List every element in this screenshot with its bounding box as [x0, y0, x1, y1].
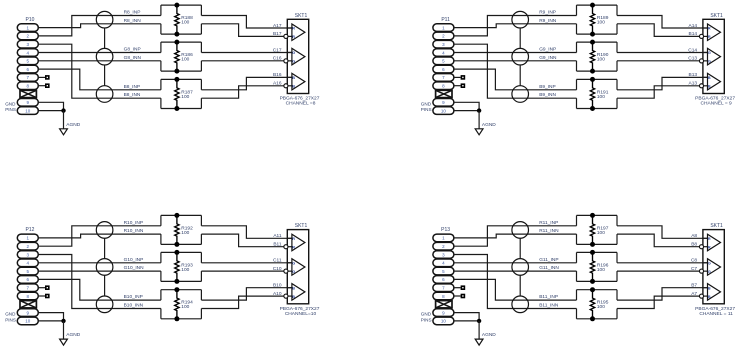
wire pin3 to B10_INN [38, 255, 161, 309]
wire R10 pair into R192 frame [161, 215, 202, 244]
svg-text:G11_INN: G11_INN [539, 265, 559, 271]
ground AGND [475, 122, 496, 135]
wire pin3 to B8_INN [38, 44, 161, 98]
wire pin10 to ground net [454, 320, 479, 322]
shield bead R11 pair [512, 222, 529, 239]
shield bead G11 pair [512, 259, 529, 276]
svg-text:G: G [292, 270, 295, 274]
wire pin8 stub [38, 85, 45, 87]
resistor R196 100 [590, 250, 609, 284]
svg-text:G11_INP: G11_INP [539, 257, 558, 263]
svg-text:100: 100 [181, 57, 189, 63]
wire to AGND [478, 321, 480, 339]
svg-text:P11: P11 [441, 17, 450, 23]
svg-text:R: R [292, 27, 295, 31]
svg-text:B17: B17 [273, 31, 282, 37]
svg-text:100: 100 [181, 304, 189, 310]
svg-text:PINS: PINS [421, 107, 432, 112]
wire pin3 to B11_INN [454, 255, 577, 309]
svg-text:A17: A17 [273, 23, 282, 29]
wire to AGND [63, 111, 65, 129]
svg-text:B: B [708, 76, 711, 80]
svg-text:R9_INN: R9_INN [539, 18, 557, 24]
wire pin9 to ground net [454, 313, 479, 321]
wire bead link 1-2 [519, 28, 521, 48]
wire bead link 2-3 [519, 65, 521, 86]
svg-text:CHANNEL = 9: CHANNEL = 9 [701, 101, 732, 107]
wire pin4 to G9_INP [454, 52, 577, 54]
svg-text:B8_INP: B8_INP [124, 84, 141, 90]
svg-text:B: B [292, 76, 295, 80]
wire to AGND [63, 321, 65, 339]
buffer B input pair [284, 284, 305, 301]
svg-text:C11: C11 [273, 258, 282, 264]
svg-text:G9_INN: G9_INN [539, 55, 557, 61]
no-connect crossed box [20, 90, 36, 97]
wire pin6 to B11_INP [454, 279, 577, 300]
wire pin1 to R11_INN [454, 234, 577, 238]
svg-text:SKT1: SKT1 [710, 13, 723, 19]
wire G9_INP to C14 [617, 52, 708, 54]
wire pin5 to G11_INN [454, 270, 577, 272]
svg-text:B10_INP: B10_INP [124, 294, 143, 300]
svg-text:A8: A8 [691, 233, 697, 239]
svg-text:C17: C17 [273, 47, 282, 53]
wire G10_INN to C10 [201, 270, 284, 272]
shield bead B9 pair [512, 86, 529, 103]
resistor R191 100 [590, 77, 609, 111]
svg-text:G: G [708, 60, 711, 64]
shield bead G10 pair [96, 259, 113, 276]
svg-text:GND: GND [5, 101, 16, 106]
svg-text:R8_INN: R8_INN [124, 18, 142, 24]
svg-text:AGND: AGND [66, 332, 80, 338]
terminator on pin 8 [45, 294, 50, 299]
svg-text:A13: A13 [689, 81, 698, 87]
svg-text:G8_INP: G8_INP [124, 47, 141, 53]
svg-text:PINS: PINS [5, 107, 16, 112]
svg-text:C14: C14 [688, 47, 697, 53]
svg-text:G10_INN: G10_INN [124, 265, 145, 271]
svg-text:B10_INN: B10_INN [124, 303, 144, 309]
wire pin5 to G10_INN [38, 270, 161, 272]
wire R11_INN to B8 [617, 234, 700, 247]
wire pin8 stub [454, 295, 461, 297]
svg-text:R11_INP: R11_INP [539, 220, 558, 226]
wire B11_INN to A7 [617, 296, 700, 308]
wire bead link 2-3 [519, 275, 521, 296]
svg-text:AGND: AGND [482, 122, 496, 128]
wire pin1 to R9_INN [454, 24, 577, 28]
svg-text:R: R [292, 245, 295, 249]
svg-text:R10_INN: R10_INN [124, 228, 144, 234]
connector P12 [17, 227, 38, 325]
svg-text:B9_INN: B9_INN [539, 92, 556, 98]
svg-text:PINS: PINS [5, 317, 16, 322]
svg-text:B8_INN: B8_INN [124, 92, 141, 98]
terminator on pin 7 [461, 75, 466, 80]
label GND PINS [421, 101, 432, 112]
svg-text:B14: B14 [689, 31, 698, 37]
ground AGND [60, 332, 81, 345]
wire B8_INN to A16 [201, 86, 284, 98]
wire G10 pair into R193 frame [161, 252, 202, 281]
svg-text:B10: B10 [273, 283, 282, 289]
svg-text:C8: C8 [691, 258, 697, 264]
svg-text:100: 100 [597, 94, 605, 100]
svg-text:AGND: AGND [66, 122, 80, 128]
shield bead R8 pair [96, 11, 113, 28]
resistor R193 100 [174, 250, 193, 284]
svg-text:B: B [292, 295, 295, 299]
svg-text:B16: B16 [273, 72, 282, 78]
buffer R input pair [284, 234, 305, 251]
ground AGND [60, 122, 81, 135]
wire pin4 to G10_INP [38, 262, 161, 264]
resistor R195 100 [590, 287, 609, 321]
svg-text:B: B [292, 286, 295, 290]
wire pin1 to R10_INN [38, 234, 161, 238]
terminator on pin 8 [461, 294, 466, 299]
wire B8_INP to B16 [201, 77, 292, 89]
resistor R192 100 [174, 213, 193, 247]
connector P10 [17, 17, 38, 115]
shield bead G9 pair [512, 48, 529, 65]
svg-text:SKT1: SKT1 [295, 223, 308, 229]
svg-text:100: 100 [181, 94, 189, 100]
no-connect crossed box [436, 90, 452, 97]
svg-text:P12: P12 [26, 227, 35, 233]
shield bead R9 pair [512, 11, 529, 28]
svg-text:100: 100 [597, 267, 605, 273]
wire B8 pair into R187 frame [161, 79, 202, 108]
svg-text:B11: B11 [273, 242, 282, 248]
wire B11 pair into R195 frame [577, 290, 618, 319]
svg-text:G: G [292, 51, 295, 55]
wire R11 pair into R197 frame [577, 215, 618, 244]
ground AGND [475, 332, 496, 345]
wire pin5 to G9_INN [454, 60, 577, 62]
label GND PINS [5, 101, 16, 112]
wire pin3 to B9_INN [454, 44, 577, 98]
wire G11_INN to C7 [617, 270, 700, 272]
buffer B input pair [699, 284, 720, 301]
wire R9_INN to B14 [617, 24, 700, 37]
shield bead B10 pair [96, 296, 113, 313]
svg-text:R8_INP: R8_INP [124, 10, 141, 16]
svg-text:G8_INN: G8_INN [124, 55, 142, 61]
wire pin4 to G8_INP [38, 52, 161, 54]
svg-text:A16: A16 [273, 81, 282, 87]
svg-text:B7: B7 [691, 283, 697, 289]
wire pin10 to ground net [454, 110, 479, 112]
wire G8_INN to C16 [201, 60, 284, 62]
no-connect crossed box [436, 301, 452, 308]
wire G8_INP to C17 [201, 52, 292, 54]
buffer R input pair [699, 24, 720, 41]
svg-text:G10_INP: G10_INP [124, 257, 144, 263]
svg-text:100: 100 [597, 230, 605, 236]
wire R9 pair into R189 frame [577, 5, 618, 34]
svg-text:GND: GND [5, 312, 16, 317]
svg-text:G: G [292, 60, 295, 64]
svg-text:B9_INP: B9_INP [539, 84, 556, 90]
socket part label [695, 306, 735, 317]
svg-text:R10_INP: R10_INP [124, 220, 143, 226]
wire G9 pair into R190 frame [577, 42, 618, 71]
junction ground node [61, 319, 65, 323]
wire B10 pair into R194 frame [161, 290, 202, 319]
wire G8 pair into R186 frame [161, 42, 202, 71]
wire B9_INP to B13 [617, 77, 708, 89]
svg-text:P10: P10 [26, 17, 35, 23]
svg-text:R: R [708, 237, 711, 241]
wire B9 pair into R191 frame [577, 79, 618, 108]
svg-text:10: 10 [441, 319, 447, 324]
wire pin6 to B10_INP [38, 279, 161, 300]
shield bead R10 pair [96, 222, 113, 239]
svg-text:CHANNEL=10: CHANNEL=10 [285, 311, 317, 317]
wire R9_INP to A14 [617, 16, 708, 29]
resistor R186 100 [174, 40, 193, 74]
wire bead link 1-2 [104, 238, 106, 258]
buffer B input pair [284, 73, 305, 90]
wire pin9 to ground net [38, 313, 63, 321]
svg-text:B13: B13 [689, 72, 698, 78]
socket SKT1 [287, 13, 308, 94]
wire pin10 to ground net [38, 110, 63, 112]
svg-text:SKT1: SKT1 [710, 223, 723, 229]
wire bead link 1-2 [519, 238, 521, 258]
wire pin7 stub [38, 76, 45, 78]
wire pin1 to R8_INN [38, 24, 161, 28]
socket part label [695, 96, 735, 107]
wire pin10 to ground net [38, 320, 63, 322]
svg-text:A14: A14 [689, 23, 698, 29]
wire B10_INN to A10 [201, 296, 284, 308]
svg-text:10: 10 [25, 108, 31, 113]
resistor R188 100 [174, 3, 193, 37]
wire pin2 to R8_INP [38, 16, 161, 36]
svg-text:C10: C10 [273, 266, 282, 272]
resistor R194 100 [174, 287, 193, 321]
wire G11_INP to C8 [617, 262, 708, 264]
shield bead G8 pair [96, 48, 113, 65]
svg-text:GND: GND [421, 312, 432, 317]
svg-text:B: B [708, 295, 711, 299]
wire B9_INN to A13 [617, 86, 700, 98]
svg-text:B: B [708, 286, 711, 290]
svg-text:AGND: AGND [482, 332, 496, 338]
wire pin8 stub [38, 295, 45, 297]
svg-text:P13: P13 [441, 227, 450, 233]
wire pin4 to G11_INP [454, 262, 577, 264]
wire R10_INP to A11 [201, 226, 292, 239]
svg-text:G9_INP: G9_INP [539, 47, 556, 53]
wire bead link 2-3 [104, 275, 106, 296]
svg-text:R: R [292, 35, 295, 39]
svg-text:B11_INP: B11_INP [539, 294, 558, 300]
resistor R197 100 [590, 213, 609, 247]
wire G11 pair into R196 frame [577, 252, 618, 281]
wire pin2 to R9_INP [454, 16, 577, 36]
wire bead link 1-2 [104, 28, 106, 48]
svg-text:B11_INN: B11_INN [539, 303, 559, 309]
connector P11 [433, 17, 454, 115]
wire R8_INP to A17 [201, 16, 292, 29]
resistor R187 100 [174, 77, 193, 111]
svg-text:CHANNEL =8: CHANNEL =8 [286, 101, 316, 107]
svg-text:100: 100 [597, 20, 605, 26]
socket part label [280, 306, 320, 317]
wire pin9 to ground net [38, 102, 63, 110]
svg-text:R11_INN: R11_INN [539, 228, 559, 234]
shield bead B8 pair [96, 86, 113, 103]
svg-text:A10: A10 [273, 291, 282, 297]
resistor R190 100 [590, 40, 609, 74]
svg-text:100: 100 [181, 267, 189, 273]
wire pin7 stub [454, 76, 461, 78]
svg-text:G: G [708, 270, 711, 274]
wire R8_INN to B17 [201, 24, 284, 37]
junction ground node [61, 108, 65, 112]
socket SKT1 [287, 223, 308, 304]
wire B10_INP to B10 [201, 288, 292, 300]
wire B11_INP to B7 [617, 288, 708, 300]
svg-text:10: 10 [25, 319, 31, 324]
terminator on pin 8 [45, 83, 50, 88]
terminator on pin 7 [461, 285, 466, 290]
svg-text:R: R [708, 35, 711, 39]
svg-text:G: G [708, 51, 711, 55]
label GND PINS [5, 312, 16, 323]
wire pin9 to ground net [454, 102, 479, 110]
wire G10_INP to C11 [201, 262, 292, 264]
svg-text:B: B [292, 85, 295, 89]
socket SKT1 [703, 223, 724, 304]
wire pin5 to G8_INN [38, 60, 161, 62]
buffer B input pair [699, 73, 720, 90]
buffer R input pair [699, 234, 720, 251]
wire R8 pair into R188 frame [161, 5, 202, 34]
svg-text:C13: C13 [688, 56, 697, 62]
wire bead link 2-3 [104, 65, 106, 86]
junction ground node [477, 108, 481, 112]
terminator on pin 7 [45, 75, 50, 80]
svg-text:R9_INP: R9_INP [539, 10, 556, 16]
terminator on pin 8 [461, 83, 466, 88]
svg-text:100: 100 [181, 20, 189, 26]
svg-text:A7: A7 [691, 291, 697, 297]
svg-text:G: G [708, 261, 711, 265]
svg-text:100: 100 [597, 57, 605, 63]
buffer G input pair [284, 48, 305, 65]
svg-text:C7: C7 [691, 266, 697, 272]
svg-text:R: R [708, 27, 711, 31]
svg-text:SKT1: SKT1 [295, 13, 308, 19]
buffer G input pair [284, 259, 305, 276]
connector P13 [433, 227, 454, 325]
svg-text:A11: A11 [273, 233, 282, 239]
svg-text:R: R [292, 237, 295, 241]
wire pin6 to B8_INP [38, 69, 161, 90]
buffer G input pair [699, 48, 720, 65]
junction ground node [477, 319, 481, 323]
no-connect crossed box [20, 301, 36, 308]
svg-text:B: B [708, 85, 711, 89]
svg-text:PINS: PINS [421, 317, 432, 322]
wire pin7 stub [454, 287, 461, 289]
wire pin2 to R10_INP [38, 226, 161, 246]
svg-text:100: 100 [597, 304, 605, 310]
wire R11_INP to A8 [617, 226, 708, 239]
terminator on pin 7 [45, 285, 50, 290]
svg-text:B8: B8 [691, 242, 697, 248]
wire pin2 to R11_INP [454, 226, 577, 246]
wire to AGND [478, 111, 480, 129]
wire pin6 to B9_INP [454, 69, 577, 90]
wire R10_INN to B11 [201, 234, 284, 247]
svg-text:CHANNEL = 11: CHANNEL = 11 [699, 311, 733, 317]
wire pin7 stub [38, 287, 45, 289]
wire pin8 stub [454, 85, 461, 87]
shield bead B11 pair [512, 296, 529, 313]
svg-text:10: 10 [441, 108, 447, 113]
svg-text:G: G [292, 261, 295, 265]
svg-text:R: R [708, 245, 711, 249]
svg-text:GND: GND [421, 101, 432, 106]
resistor R189 100 [590, 3, 609, 37]
socket SKT1 [703, 13, 724, 94]
buffer R input pair [284, 24, 305, 41]
label GND PINS [421, 312, 432, 323]
wire G9_INN to C13 [617, 60, 700, 62]
svg-text:100: 100 [181, 230, 189, 236]
svg-text:C16: C16 [273, 56, 282, 62]
buffer G input pair [699, 259, 720, 276]
socket part label [280, 96, 320, 107]
